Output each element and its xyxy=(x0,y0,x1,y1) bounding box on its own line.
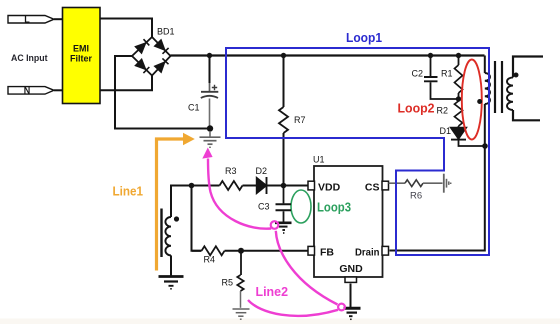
resistor R5 xyxy=(240,251,242,275)
wire R3 to D2 xyxy=(243,185,257,187)
wire FB pin to R4 node xyxy=(241,250,308,252)
node drain/primary xyxy=(482,143,488,149)
ground aux xyxy=(159,277,184,289)
wire aux winding to ground xyxy=(170,255,172,275)
diode D1 xyxy=(451,128,467,140)
resistor R6 xyxy=(405,180,423,187)
ground U1 GND xyxy=(344,308,361,319)
svg-text:VDD: VDD xyxy=(318,182,341,194)
transformer core xyxy=(495,61,502,113)
svg-text:GND: GND xyxy=(339,263,363,275)
svg-text:D2: D2 xyxy=(256,166,268,176)
node aux top xyxy=(189,183,195,189)
terminal N xyxy=(8,87,54,95)
svg-text:Line1: Line1 xyxy=(113,184,144,199)
pin VDD xyxy=(308,181,315,190)
svg-text:D1: D1 xyxy=(440,126,452,136)
svg-text:BD1: BD1 xyxy=(157,27,175,37)
svg-text:AC Input: AC Input xyxy=(11,53,48,64)
wire aux node to R3 xyxy=(192,185,220,187)
wire main positive rail xyxy=(171,54,485,56)
line2 curve to C1 ground arrow xyxy=(208,159,271,229)
line2 ring at U1 ground xyxy=(338,304,345,311)
capacitor C3 xyxy=(283,186,285,204)
wire CS pin to R6 xyxy=(389,182,406,184)
wire GND pin to ground xyxy=(350,284,352,308)
loop1 outline xyxy=(226,48,489,255)
svg-text:R6: R6 xyxy=(410,191,422,202)
pin CS xyxy=(382,181,389,190)
line2 ring at C3 ground xyxy=(271,221,279,229)
EMI filter block xyxy=(63,8,101,104)
svg-text:N: N xyxy=(24,85,31,95)
line2 tail curve xyxy=(248,300,338,316)
loop2 ellipse xyxy=(462,60,482,140)
secondary phase dot xyxy=(514,73,519,78)
wire node down to R4 xyxy=(192,186,202,251)
svg-text:R3: R3 xyxy=(225,166,237,176)
primary phase dot xyxy=(477,99,482,104)
line1 arrow xyxy=(157,139,184,271)
node R1 top xyxy=(456,53,461,58)
aux winding xyxy=(165,217,171,255)
wire D1 to drain node xyxy=(459,126,486,146)
svg-text:Loop1: Loop1 xyxy=(346,30,382,45)
resistor R3 xyxy=(220,181,243,190)
line2 curve to GND ring xyxy=(276,231,338,305)
terminal L xyxy=(8,16,54,24)
svg-text:C3: C3 xyxy=(258,202,270,212)
wire bridge negative to C1 ground xyxy=(115,56,210,129)
bridge rectifier BD1 xyxy=(132,37,171,76)
svg-text:R4: R4 xyxy=(204,255,216,265)
svg-text:U1: U1 xyxy=(313,155,325,165)
svg-text:EMI: EMI xyxy=(73,44,89,54)
transformer secondary winding xyxy=(513,57,543,78)
resistor R4 xyxy=(192,250,202,252)
wire N terminal to EMI xyxy=(54,89,63,91)
ground R5 xyxy=(233,309,250,319)
node FB/R4/R5 xyxy=(238,248,244,254)
svg-text:C1: C1 xyxy=(188,103,200,113)
diode D2 xyxy=(257,177,267,194)
wire aux winding to node xyxy=(171,186,192,218)
svg-text:R2: R2 xyxy=(437,106,449,116)
transformer primary winding xyxy=(484,56,486,74)
svg-text:CS: CS xyxy=(365,182,380,194)
resistor R7 xyxy=(283,56,285,108)
node C2 top xyxy=(428,53,433,58)
wire R6 to ground xyxy=(423,182,443,184)
node C1 top xyxy=(207,53,212,58)
ground C1 xyxy=(200,131,221,147)
resistor R1 xyxy=(458,56,460,66)
svg-text:Loop3: Loop3 xyxy=(317,200,351,215)
capacitor C1 xyxy=(209,56,211,84)
svg-text:Drain: Drain xyxy=(355,247,380,259)
IC U1 body xyxy=(314,166,383,277)
ground C3 xyxy=(275,223,292,233)
node VDD xyxy=(281,183,287,189)
svg-text:C2: C2 xyxy=(412,69,424,79)
loop3 ellipse xyxy=(291,190,311,223)
pin Drain xyxy=(382,246,389,255)
svg-text:Line2: Line2 xyxy=(256,284,289,299)
wire D2 to VDD pin xyxy=(267,185,308,187)
resistor R2 xyxy=(455,101,463,126)
ground CS (sideways) xyxy=(444,174,451,193)
aux core bar xyxy=(160,209,162,258)
pin FB xyxy=(308,246,315,255)
node R1 bottom xyxy=(456,96,461,101)
svg-text:R5: R5 xyxy=(222,278,234,288)
svg-text:R1: R1 xyxy=(441,69,453,79)
node C1 bottom xyxy=(207,125,213,131)
svg-text:Loop2: Loop2 xyxy=(398,100,435,115)
svg-text:R7: R7 xyxy=(294,115,306,125)
wire EMI to bridge bottom (N) xyxy=(100,76,152,91)
svg-text:Filter: Filter xyxy=(70,54,93,64)
aux phase dot xyxy=(174,216,179,221)
pin GND xyxy=(345,277,357,282)
capacitor C2 xyxy=(430,56,432,77)
node R7 top xyxy=(281,53,286,58)
wire L terminal to EMI xyxy=(54,18,63,20)
svg-text:FB: FB xyxy=(320,247,334,259)
wire EMI to bridge top (L) xyxy=(100,19,152,38)
svg-text:L: L xyxy=(24,14,30,24)
